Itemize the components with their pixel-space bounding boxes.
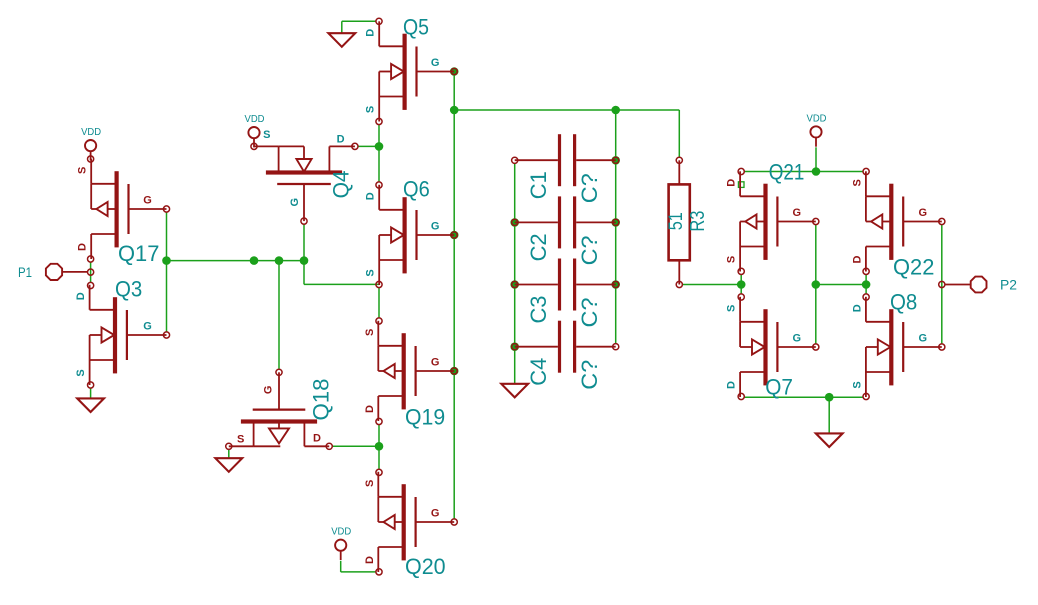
svg-text:G: G <box>919 333 928 345</box>
wire node C link <box>816 284 866 286</box>
wire stub end square <box>738 182 744 188</box>
wire Q4.D tap <box>358 145 379 147</box>
svg-text:S: S <box>364 480 376 487</box>
wire node B horizontal <box>454 109 679 111</box>
svg-text:C?: C? <box>577 173 602 203</box>
wire Q17.G to Q3.G vertical <box>166 212 168 331</box>
svg-text:D: D <box>365 192 377 200</box>
svg-text:P2: P2 <box>1000 277 1017 292</box>
svg-text:G: G <box>143 195 152 207</box>
svg-text:Q20: Q20 <box>405 554 446 579</box>
transistor Q22 <box>851 171 941 279</box>
svg-text:G: G <box>431 57 440 69</box>
transistor Q3 <box>75 276 166 385</box>
transistor Q18 <box>229 372 334 446</box>
resistor R3 <box>666 160 709 284</box>
wire Q3.S to ground <box>90 388 92 398</box>
svg-text:C?: C? <box>577 298 602 328</box>
wire VDD to Q20.D horizontal <box>341 571 376 573</box>
wire Q4.G to node A <box>303 224 305 260</box>
wire Q5.D ground stub <box>341 21 343 33</box>
ground (Q18 source) <box>215 458 242 472</box>
wire node A jog down <box>303 261 305 285</box>
svg-text:D: D <box>77 243 89 251</box>
svg-text:VDD: VDD <box>81 126 101 138</box>
svg-text:S: S <box>263 129 270 141</box>
ground (Q5 drain) <box>328 33 355 47</box>
junction at (816,171.5) <box>812 167 821 176</box>
junction at (615.7,284.5) <box>611 280 620 289</box>
svg-text:G: G <box>431 221 440 233</box>
svg-text:S: S <box>726 256 738 263</box>
wire node B down to R3 <box>678 110 680 157</box>
svg-text:D: D <box>726 179 738 187</box>
transistor Q8 <box>851 289 941 397</box>
wire Q5.S to Q6.D <box>378 125 380 182</box>
wire Q18.S to ground <box>228 450 230 459</box>
port P1 <box>18 264 88 280</box>
wire VDD drop right <box>815 147 817 171</box>
svg-text:D: D <box>851 304 863 312</box>
port P2 <box>945 277 1017 293</box>
svg-text:D: D <box>851 255 863 263</box>
svg-text:C4: C4 <box>526 358 551 386</box>
svg-text:Q17: Q17 <box>118 241 159 266</box>
wire node A to Q18.G <box>278 261 280 369</box>
svg-text:D: D <box>726 381 738 389</box>
svg-text:S: S <box>75 369 87 376</box>
ground (right) <box>816 433 843 447</box>
transistor Q6 <box>365 176 455 285</box>
wire ground drop right <box>828 397 830 433</box>
wire Q22.D to Q8.D <box>865 275 867 294</box>
svg-text:51: 51 <box>666 212 687 230</box>
capacitor C4 <box>515 321 616 390</box>
svg-text:G: G <box>263 386 275 395</box>
svg-text:D: D <box>313 432 321 444</box>
svg-text:P1: P1 <box>18 265 32 280</box>
capacitor C1 <box>515 134 616 203</box>
power VDD (Q17) <box>81 126 101 160</box>
svg-text:C3: C3 <box>526 296 551 324</box>
svg-text:S: S <box>851 381 863 388</box>
svg-text:VDD: VDD <box>245 113 265 125</box>
junction at (454.2,371) <box>450 367 459 376</box>
svg-text:G: G <box>919 207 928 219</box>
wire Q21.S to Q7.S <box>740 275 742 294</box>
junction at (379,446.3) <box>375 442 384 451</box>
wire Q18.D tap <box>333 445 380 447</box>
junction at (304,260.6) <box>300 256 309 265</box>
transistor Q21 <box>726 160 816 272</box>
transistor Q19 <box>364 321 454 430</box>
svg-text:C?: C? <box>577 235 602 265</box>
wire cap bank left vertical to ground <box>514 164 516 384</box>
svg-text:C2: C2 <box>526 233 551 261</box>
wire Q19.D to Q20.S <box>378 425 380 469</box>
junction at (741.2,284.5) <box>737 280 746 289</box>
svg-text:S: S <box>364 329 376 336</box>
svg-text:G: G <box>431 508 440 520</box>
svg-text:G: G <box>793 207 802 219</box>
capacitor C3 <box>515 259 616 328</box>
junction at (514.7,222.4) <box>510 218 519 227</box>
junction at (829.2,397.2) <box>825 393 834 402</box>
svg-text:R3: R3 <box>687 211 709 232</box>
svg-text:D: D <box>364 405 376 413</box>
svg-text:Q18: Q18 <box>309 379 334 421</box>
junction at (514.7,346.7) <box>510 342 519 351</box>
junction at (866.1,284.5) <box>862 280 871 289</box>
power VDD (Q20) <box>331 526 351 560</box>
wire Q5.D to ground <box>342 20 376 22</box>
capacitor C2 <box>515 196 616 265</box>
svg-text:S: S <box>851 179 863 186</box>
svg-text:G: G <box>143 321 152 333</box>
wire ground rail Q7.D to Q8.S <box>745 396 863 398</box>
wire P1 column (Q17.D-P1-Q3.D) <box>90 262 92 282</box>
wire cap bank right vertical <box>615 110 617 343</box>
svg-text:S: S <box>237 433 244 445</box>
svg-text:G: G <box>289 198 301 207</box>
svg-text:Q3: Q3 <box>115 276 142 301</box>
junction at (454.2,110) <box>450 106 459 115</box>
transistor Q7 <box>726 297 816 400</box>
wire node A horizontal <box>167 260 305 262</box>
pin endpoint circles <box>88 18 945 575</box>
junction at (166.5,260.6) <box>162 256 171 265</box>
svg-text:Q4: Q4 <box>329 170 354 198</box>
transistor Q20 <box>364 472 454 579</box>
junction at (254,260.6) <box>250 256 259 265</box>
svg-text:Q22: Q22 <box>893 255 934 280</box>
svg-text:Q5: Q5 <box>403 14 429 39</box>
svg-text:G: G <box>793 333 802 345</box>
junction at (815.8,284.5) <box>812 280 821 289</box>
wire Q6.S to Q19.S <box>378 288 380 318</box>
power VDD (Q4) <box>245 113 265 147</box>
transistor Q5 <box>365 14 455 121</box>
svg-text:S: S <box>365 106 377 113</box>
svg-text:D: D <box>337 134 345 146</box>
transistor Q17 <box>77 159 167 266</box>
junction at (279,260.6) <box>275 256 284 265</box>
wire VDD rail Q21.D to Q22.S <box>745 171 863 173</box>
junction at (454.2,71.5) <box>450 67 459 76</box>
svg-text:VDD: VDD <box>807 112 827 124</box>
svg-text:S: S <box>726 305 738 312</box>
wire Q21.G to Q7.G vertical <box>815 225 817 344</box>
svg-text:Q7: Q7 <box>765 375 793 400</box>
svg-text:Q19: Q19 <box>405 405 445 430</box>
svg-text:S: S <box>365 269 377 276</box>
transistor Q4 <box>254 129 355 221</box>
junction at (615.7,110) <box>611 106 620 115</box>
ground (cap bank) <box>501 384 528 398</box>
svg-text:Q6: Q6 <box>403 176 430 201</box>
svg-text:Q21: Q21 <box>769 160 805 185</box>
wire Q22.G to P2 to Q8.G <box>941 225 943 344</box>
wire node A to Q6.S <box>304 283 379 285</box>
svg-text:C?: C? <box>577 360 602 390</box>
junction at (615.7,160.3) <box>611 156 620 165</box>
junction at (379,146.4) <box>375 142 384 151</box>
svg-text:D: D <box>365 29 377 37</box>
wire gate bus Q5.G-Q6.G-Q19.G-Q20.G <box>453 72 455 519</box>
svg-text:VDD: VDD <box>331 526 351 538</box>
junction at (454.2,235) <box>450 231 459 240</box>
svg-text:G: G <box>431 357 440 369</box>
ground (Q3 source) <box>77 398 104 412</box>
svg-text:S: S <box>77 167 89 174</box>
junction at (615.7,222.4) <box>611 218 620 227</box>
wire R3 bottom to node C <box>683 284 742 286</box>
wire VDD to Q20.D vertical <box>340 561 342 572</box>
svg-text:Q8: Q8 <box>890 289 917 314</box>
svg-text:D: D <box>364 556 376 564</box>
power VDD (right) <box>807 112 827 146</box>
svg-text:D: D <box>75 292 87 300</box>
junction at (514.7,284.5) <box>510 280 519 289</box>
svg-text:C1: C1 <box>526 171 551 199</box>
